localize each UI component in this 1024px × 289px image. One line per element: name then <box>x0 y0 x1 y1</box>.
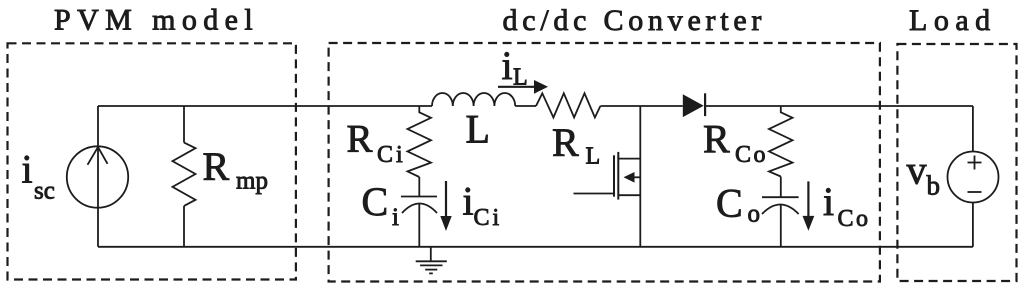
body arrow <box>634 176 640 178</box>
capacitor C_o <box>762 177 799 247</box>
wire inductor to RL <box>515 105 536 107</box>
resistor R_mp <box>173 106 196 247</box>
label i_Co <box>823 179 871 232</box>
drain connect <box>618 158 640 160</box>
svg-text:L: L <box>466 107 490 152</box>
svg-text:b: b <box>927 171 941 201</box>
drain vertical <box>639 106 641 247</box>
wire load bottom drop <box>972 203 974 247</box>
gate lead <box>574 193 615 195</box>
resistor R_Ci <box>408 106 432 177</box>
svg-text:o: o <box>748 201 761 228</box>
label i_sc <box>22 147 55 205</box>
label C_i <box>362 179 400 231</box>
svg-text:Co: Co <box>838 206 871 232</box>
svg-text:R: R <box>552 120 579 165</box>
svg-text:Ci: Ci <box>377 142 406 168</box>
svg-text:i: i <box>823 179 834 224</box>
label R_mp <box>203 144 268 195</box>
capacitor C_i <box>401 177 437 247</box>
arrow i_Ci <box>440 181 451 231</box>
arrow i_Co <box>803 181 815 230</box>
svg-text:R: R <box>703 117 730 162</box>
svg-text:i: i <box>463 179 474 224</box>
wire bottom rail <box>98 246 973 248</box>
label i_Ci <box>463 179 503 232</box>
wire RL to diode anode <box>600 105 682 107</box>
current source arrow <box>88 147 108 165</box>
svg-text:sc: sc <box>34 178 55 205</box>
svg-text:Ci: Ci <box>474 205 503 231</box>
wire load top drop <box>972 106 974 152</box>
svg-text:R: R <box>203 144 230 189</box>
svg-text:C: C <box>716 181 743 226</box>
svg-text:v: v <box>907 148 927 193</box>
dashed box dc/dc Converter <box>329 43 880 282</box>
diode D1 <box>683 93 705 117</box>
svg-text:Load: Load <box>909 4 997 37</box>
label C_o <box>716 181 760 228</box>
svg-text:i: i <box>392 204 399 231</box>
voltage source v_b circle <box>948 152 999 203</box>
label R_Ci <box>347 118 406 169</box>
wire left vertical through source <box>97 106 99 247</box>
gate bar <box>613 155 615 196</box>
wire diode cathode to load <box>705 105 973 107</box>
v_b minus sign <box>968 191 982 193</box>
source connect <box>618 194 640 196</box>
svg-text:Co: Co <box>735 142 768 168</box>
wire top rail left (node in) <box>98 105 432 107</box>
svg-text:i: i <box>502 43 513 88</box>
resistor R_Co <box>769 106 793 177</box>
svg-text:C: C <box>362 179 389 224</box>
resistor R_L <box>536 93 600 117</box>
v_b plus sign <box>968 156 982 170</box>
label R_Co <box>703 117 768 169</box>
svg-text:L: L <box>586 144 601 170</box>
svg-text:R: R <box>347 118 373 161</box>
svg-text:dc/dc Converter: dc/dc Converter <box>503 4 767 37</box>
MOSFET Q1 <box>574 106 641 247</box>
svg-text:mp: mp <box>236 168 268 195</box>
label v_b <box>907 148 941 201</box>
label i_L <box>502 43 528 91</box>
current source i_sc circle <box>67 146 128 207</box>
arrow i_L <box>498 80 548 94</box>
inductor L <box>432 93 515 106</box>
channel bar <box>617 152 619 200</box>
svg-text:PVM model: PVM model <box>54 4 259 37</box>
ground <box>416 247 447 274</box>
label R_L <box>552 120 600 170</box>
svg-text:i: i <box>22 147 33 192</box>
dashed box PVM model <box>8 43 296 279</box>
dashed box Load <box>897 44 1016 281</box>
